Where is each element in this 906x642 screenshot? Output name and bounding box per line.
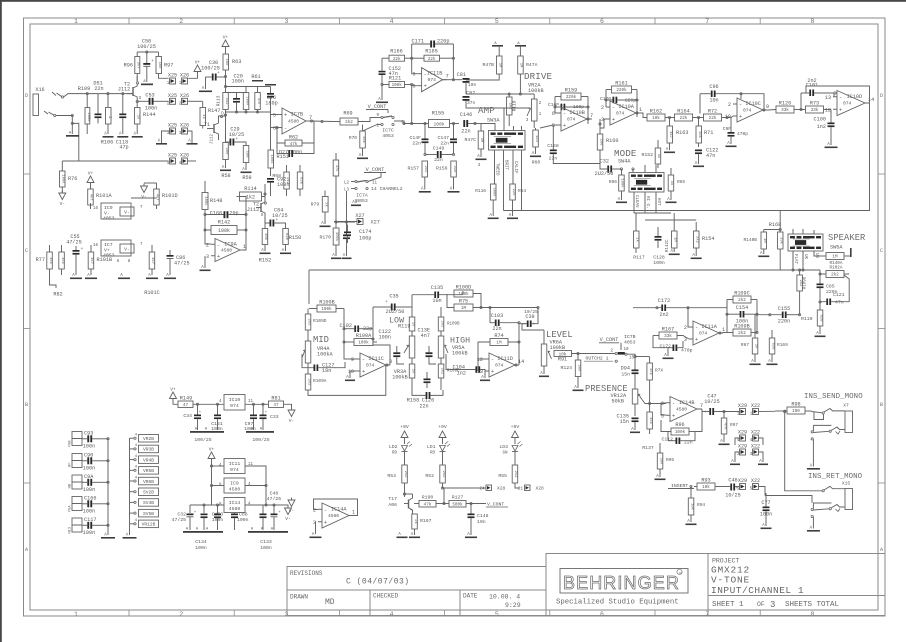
wire presence wiper [642,400,650,404]
svg-text:100kB: 100kB [528,88,544,94]
svg-text:100k: 100k [458,292,469,297]
svg-text:10/25: 10/25 [272,213,288,219]
svg-text:2k2: 2k2 [403,471,408,479]
wire input signal [64,94,134,97]
svg-text:15k: 15k [60,257,65,265]
svg-text:C32: C32 [177,512,186,518]
svg-text:100/25: 100/25 [137,44,156,50]
wire V+ to X26-1 [188,74,198,78]
jack X7 ring contact [829,430,831,432]
svg-text:R119: R119 [512,100,518,111]
svg-text:3: 3 [770,600,775,610]
svg-text:R69: R69 [343,111,352,117]
svg-text:R47B: R47B [482,62,494,68]
svg-text:10k: 10k [652,116,660,121]
svg-text:8: 8 [810,18,814,25]
svg-text:+: + [151,59,154,64]
svg-text:C81: C81 [457,72,466,78]
ground ps1a [190,431,224,433]
svg-text:R147: R147 [208,108,220,114]
svg-text:20p: 20p [229,211,238,217]
svg-text:+9V: +9V [438,424,447,430]
svg-text:7: 7 [705,18,709,25]
svg-text:+: + [704,410,707,415]
svg-text:C85: C85 [826,284,835,290]
resistor R117 [634,231,640,248]
svg-text:V-TONE: V-TONE [711,575,750,586]
capacitor C-mid [233,98,240,100]
svg-text:V_CONT: V_CONT [600,337,619,343]
svg-text:14 CHANNEL2: 14 CHANNEL2 [371,186,403,192]
wire IC14A feedback box [314,499,358,516]
svg-text:2k2: 2k2 [513,471,518,479]
svg-text:1M: 1M [762,238,766,243]
connector H13 [72,518,82,525]
ground R58 [220,170,231,172]
svg-text:1M: 1M [498,63,502,68]
svg-text:R127: R127 [452,495,464,501]
svg-text:6: 6 [412,72,415,78]
svg-text:R101D: R101D [162,193,178,199]
ground X29g [730,464,740,466]
resistor R109D mid [305,314,311,330]
svg-text:074: 074 [616,111,625,117]
ground R169 [767,364,778,366]
svg-text:R60: R60 [532,160,541,166]
wire IC14B plus in [650,403,666,405]
svg-text:C14F: C14F [409,135,421,141]
svg-text:100: 100 [157,62,161,70]
connector SV2B [139,488,159,496]
svg-text:IC7: IC7 [104,242,113,248]
ground C100 [825,147,838,149]
resistor R197 [412,514,418,529]
resistor R101D [154,189,160,205]
svg-text:-: - [284,125,287,132]
svg-text:22n: 22n [492,326,501,332]
resistor R58 [223,143,229,160]
resistor R101C [149,252,155,269]
svg-text:X22: X22 [751,430,760,436]
svg-text:3: 3 [284,611,288,618]
ground C77 [761,528,772,530]
svg-text:R71: R71 [704,130,713,136]
svg-text:HI G.: HI G. [645,196,649,209]
IC14 power box [224,498,245,513]
svg-text:LD1: LD1 [427,444,436,450]
wire X26-3 stub [188,131,193,143]
ground IC11C [350,371,356,378]
resistor R96 [135,57,140,74]
jumper X29 [740,409,746,415]
jumper X26 [182,158,188,164]
svg-text:2k: 2k [413,519,418,524]
ground C173 [663,358,674,360]
svg-text:IC14: IC14 [229,500,241,506]
svg-text:4580: 4580 [676,407,687,413]
svg-text:2: 2 [728,102,731,108]
svg-text:R124: R124 [560,365,572,371]
svg-text:22n: 22n [419,404,428,410]
wire conn gnd [107,439,109,536]
power V+ LD3 [512,431,519,438]
ground IC11D [484,371,486,378]
svg-text:IC7A: IC7A [356,193,368,199]
svg-text:R166: R166 [390,49,402,55]
svg-text:R94: R94 [697,502,705,508]
svg-text:+9V: +9V [511,424,520,430]
resistor R71 [696,126,702,143]
svg-text:5: 5 [412,84,415,90]
pot VR3A [409,336,415,358]
svg-text:IC11: IC11 [229,461,241,467]
resistor input 100k [85,108,90,125]
svg-text:R140B: R140B [743,237,757,243]
svg-text:IC10: IC10 [229,397,241,403]
wire mode bus2 [645,219,696,221]
connector VR4B [139,456,159,464]
svg-text:6: 6 [273,126,276,132]
svg-text:100: 100 [224,59,228,67]
svg-text:SPEAKER: SPEAKER [828,233,866,243]
svg-text:100k: 100k [269,154,274,164]
svg-text:A06: A06 [388,502,397,508]
svg-text:22k: 22k [393,57,401,62]
svg-text:IC11A: IC11A [701,324,717,330]
svg-text:X29: X29 [738,478,747,484]
resistor R47A [518,56,524,74]
jumper X22 [753,435,759,441]
connector VR5B [139,467,159,475]
wire C39 to pot [543,330,545,338]
wire IC10B inp [555,112,557,114]
resistor R76 [60,171,66,187]
svg-text:R113: R113 [216,95,222,106]
svg-text:2: 2 [206,242,209,248]
svg-text:IC10A: IC10A [618,104,634,110]
jack ring contact [44,111,48,114]
svg-text:TWEED: TWEED [495,163,499,176]
power V+ [194,65,201,72]
ground conns2 [123,537,137,539]
svg-text:100k: 100k [334,232,339,242]
wire IC10D fb [806,86,870,103]
resistor R47B [497,56,503,74]
svg-text:10k: 10k [697,131,702,139]
resistor R124 [575,360,581,377]
svg-text:6: 6 [552,111,555,117]
svg-text:2: 2 [601,105,604,111]
svg-text:4k7: 4k7 [89,257,94,264]
jumper X29 [740,449,746,455]
resistor R68 [284,172,290,189]
svg-text:V+: V+ [223,35,229,41]
svg-text:12: 12 [825,107,831,113]
op-amp IC11A [693,321,719,345]
svg-text:+: + [284,112,287,119]
svg-text:C9F: C9F [723,126,732,132]
resistor R62 [285,140,302,146]
svg-text:2: 2 [179,611,183,618]
svg-text:+: + [563,122,566,129]
svg-text:4: 4 [390,611,394,618]
svg-text:22n: 22n [434,157,443,163]
svg-text:5: 5 [273,113,276,119]
svg-text:R79: R79 [311,202,320,208]
jack X15 ring contact [829,508,831,510]
svg-text:IC11B: IC11B [427,71,443,77]
svg-text:HF: HF [69,463,73,467]
svg-text:4580: 4580 [229,487,241,493]
svg-text:33k: 33k [779,237,784,245]
svg-text:4n7: 4n7 [421,333,430,339]
svg-text:R77: R77 [36,257,45,263]
svg-text:R154: R154 [702,236,714,242]
svg-text:R97: R97 [164,63,173,69]
svg-text:100p: 100p [359,236,371,242]
svg-text:R82: R82 [53,292,62,298]
svg-text:6: 6 [600,18,604,25]
svg-text:R158: R158 [407,398,419,404]
svg-text:11: 11 [372,182,378,186]
svg-text:4053: 4053 [103,216,115,222]
svg-text:100n: 100n [83,444,95,450]
svg-text:620: 620 [818,315,822,323]
op-amp IC11C [360,353,386,377]
resistor above VR3A [409,317,415,331]
op-amp IC7B [282,108,306,134]
svg-text:1: 1 [74,18,78,25]
svg-text:BEHRINGER: BEHRINGER [563,573,680,593]
revisions block [287,567,546,616]
svg-text:1M: 1M [832,255,838,260]
wire T17 collector [405,493,413,495]
wire ps2 left [212,461,225,505]
resistor R70b [297,172,303,189]
switch wires bottom + labels [493,150,494,184]
wire IC11B out right [453,79,462,81]
ground R197g [409,537,420,539]
resistor R106 1M [106,108,112,125]
svg-text:15k: 15k [48,257,53,265]
svg-text:15n: 15n [621,372,630,378]
svg-text:4k7: 4k7 [89,194,94,201]
svg-text:R102A: R102A [830,265,843,270]
svg-text:47/25: 47/25 [172,517,187,523]
op-amp IC10B [561,107,587,131]
svg-text:1k: 1k [635,237,640,242]
resistor R79b [322,197,328,213]
svg-text:C166: C166 [84,496,96,502]
svg-text:V-: V- [141,194,146,200]
resistor bias 100 [243,146,249,163]
svg-text:100n: 100n [237,517,249,523]
svg-text:47/25: 47/25 [174,261,190,267]
svg-text:100n: 100n [83,509,95,515]
svg-text:CLEAN: CLEAN [634,195,638,208]
svg-text:100n: 100n [83,487,95,493]
svg-text:7: 7 [590,113,593,119]
op-amp IC9A [215,239,240,262]
power V- [285,508,292,515]
resistor R150b [283,229,289,245]
svg-text:+: + [362,368,365,375]
ground IC7A [351,205,361,207]
resistor left 47k [333,160,339,176]
svg-text:X22: X22 [751,403,760,409]
svg-text:X27: X27 [355,213,364,219]
svg-text:R165: R165 [425,49,437,55]
svg-text:IC9: IC9 [230,481,239,487]
svg-text:100n: 100n [83,466,95,472]
svg-text:R101A: R101A [96,193,112,199]
svg-text:2n2: 2n2 [659,312,668,318]
jack X7 switch box [814,412,824,420]
svg-text:R64: R64 [518,188,526,194]
svg-text:IC10C: IC10C [745,101,761,107]
svg-text:2U2/50: 2U2/50 [595,171,614,177]
resistor R110 [817,310,823,326]
svg-text:C35: C35 [389,294,398,300]
svg-text:R160: R160 [606,138,618,144]
svg-text:X28: X28 [536,486,545,492]
svg-text:47n: 47n [835,300,844,306]
ground g3 [118,278,130,280]
svg-text:1M: 1M [496,341,502,346]
svg-text:R117: R117 [633,255,645,261]
ground jack [66,135,79,137]
power V+ [222,40,229,47]
jumper X26 [182,128,188,134]
svg-text:7: 7 [446,74,449,80]
power V- [288,500,295,507]
connector HB [72,475,82,482]
wire R100D right [473,294,481,308]
svg-text:X26: X26 [180,153,189,159]
svg-text:100: 100 [224,148,228,156]
wire speaker top bus [764,229,780,231]
capacitor C118 [119,114,126,116]
wire mode bus [634,212,671,214]
resistor R116 [491,184,497,200]
svg-text:+: + [612,116,615,123]
svg-text:+: + [235,137,238,142]
ground C30 [205,77,207,89]
wire IC11B out [443,79,454,81]
svg-text:OUTCH2 1: OUTCH2 1 [586,356,609,362]
jumper X22 [753,484,759,490]
svg-text:C172: C172 [658,298,670,304]
jumper X26 [182,98,188,104]
svg-text:100k: 100k [61,174,66,184]
svg-text:100n: 100n [653,260,665,266]
svg-text:10k: 10k [658,458,663,466]
power V+ [87,176,94,183]
svg-text:+: + [275,218,278,223]
svg-text:7: 7 [700,403,703,409]
svg-text:Specialized Studio Equipment: Specialized Studio Equipment [556,599,679,607]
svg-text:R65: R65 [677,179,685,185]
svg-text:R47A: R47A [526,62,538,68]
svg-text:R76: R76 [68,176,77,182]
svg-text:3k7: 3k7 [136,62,141,69]
svg-text:UK: UK [803,254,807,260]
svg-text:16: 16 [93,244,99,248]
svg-text:-: - [324,506,327,513]
svg-text:L2: L2 [344,182,350,186]
resistor R160 [597,134,603,150]
svg-text:V-: V- [289,508,294,514]
svg-text:LD2: LD2 [389,444,398,450]
svg-text:1k: 1k [656,154,661,159]
svg-text:10n: 10n [477,519,486,525]
svg-text:4k7: 4k7 [150,257,155,264]
op-amp IC10C [737,98,763,122]
svg-text:100kA: 100kA [317,352,333,358]
power V+ [170,392,177,399]
resistor R109A mid [305,374,311,390]
svg-text:IC7B: IC7B [291,112,303,118]
svg-text:R142: R142 [218,220,230,226]
svg-text:R109B: R109B [447,323,460,327]
svg-text:+: + [217,253,220,260]
wire bias rail [226,86,271,88]
ground R60 [530,156,541,158]
svg-text:15k: 15k [648,368,653,376]
svg-text:100n: 100n [232,79,244,85]
wire bus y270 [309,269,820,271]
capacitor C122 low sym [393,352,400,354]
svg-text:VR2B: VR2B [143,436,154,442]
svg-text:10k: 10k [559,352,567,357]
svg-text:R170: R170 [319,235,331,241]
svg-text:500k: 500k [492,187,497,197]
svg-text:SW4A: SW4A [618,159,631,165]
resistor R163 [667,126,673,143]
svg-text:10k: 10k [702,485,710,490]
svg-text:21: 21 [518,488,524,492]
svg-text:2: 2 [179,18,183,25]
svg-text:V-: V- [285,516,290,522]
ground IC7A [355,199,357,203]
wire R52 to base [443,488,445,504]
IC7 4053 box [101,240,131,256]
svg-text:9: 9 [351,357,354,363]
svg-text:2: 2 [684,325,687,331]
svg-text:2k2: 2k2 [695,236,700,244]
svg-text:100k: 100k [203,196,208,206]
svg-text:4580: 4580 [328,513,339,519]
border zone ticks [128,18,130,24]
svg-text:C149: C149 [433,146,445,152]
svg-text:7: 7 [705,611,709,618]
wire IC11B minus [412,58,418,73]
svg-text:R109D: R109D [313,318,327,324]
ground R157g [419,191,431,193]
capacitor C32 [607,166,609,173]
jumper X22 [753,449,759,455]
svg-text:10k: 10k [689,503,694,511]
svg-text:1n2: 1n2 [457,371,466,377]
svg-text:+: + [217,71,220,76]
svg-text:V+: V+ [88,171,94,177]
svg-text:V-: V- [124,210,130,216]
svg-text:2k2: 2k2 [345,120,353,125]
svg-text:R55: R55 [498,473,507,479]
IC9 power box [224,478,245,493]
wire IC7B inp [271,114,279,116]
svg-text:620: 620 [298,177,302,185]
